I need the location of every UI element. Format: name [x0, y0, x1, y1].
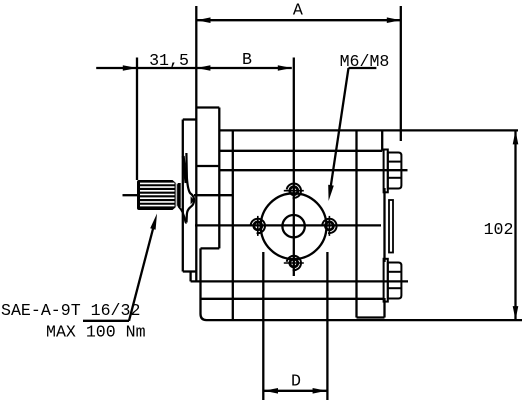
tapped hole bottom	[284, 256, 304, 270]
body lower-left column	[199, 248, 201, 314]
rear plate vertical mid	[383, 188, 385, 262]
leader M6/M8 underline	[349, 67, 377, 69]
D right arrow	[313, 388, 327, 394]
seal plate bottom	[183, 270, 197, 272]
svg-text:A: A	[293, 1, 303, 20]
dimension A left arrow	[197, 17, 211, 23]
shaft centerline stub left	[123, 194, 138, 196]
rear cover front vertical	[355, 130, 357, 317]
port boss circle	[261, 193, 327, 259]
31,5 left outside arrow	[123, 65, 137, 71]
svg-text:B: B	[242, 50, 252, 69]
leader M6/M8 line	[330, 68, 348, 190]
body bottom line with rounded corner	[201, 314, 523, 320]
flange chamfer line	[196, 165, 218, 167]
svg-text:SAE-A-9T 16/32: SAE-A-9T 16/32	[1, 301, 140, 320]
extension line shaft end (x=137)	[136, 58, 138, 181]
tapped hole right	[322, 216, 336, 236]
flange top	[196, 106, 219, 108]
bottom bolt washer	[384, 259, 388, 302]
dimension D line	[264, 390, 327, 392]
dimension 102 line	[514, 130, 516, 320]
body top line	[219, 129, 518, 131]
rear cover back vertical top	[381, 130, 383, 150]
rear thin plate between bolts	[389, 200, 393, 253]
port bore circle	[282, 215, 304, 237]
B left arrow (tip at flange face ext)	[196, 65, 210, 71]
rear plate vertical bottom	[383, 298, 385, 318]
extension line right (x=401)	[400, 6, 402, 141]
tapped hole top	[284, 183, 304, 197]
shaft neck profile curve	[186, 153, 194, 223]
top bolt head	[388, 153, 402, 189]
leader SAE underline	[83, 320, 129, 322]
body split line lower	[201, 298, 384, 300]
svg-text:31,5: 31,5	[149, 51, 189, 70]
port horizontal centerline	[195, 224, 381, 226]
leader SAE arrowhead	[150, 214, 157, 230]
leader SAE line	[129, 225, 154, 321]
flange rear edge	[218, 108, 220, 249]
tapped hole left	[251, 216, 265, 236]
dimension A line	[196, 19, 400, 21]
body front vertical	[232, 130, 234, 320]
seal wedge	[183, 156, 186, 183]
B right arrow	[278, 65, 292, 71]
bottom bolt head	[388, 263, 402, 299]
top bolt washer	[384, 150, 388, 193]
gear top line / top bolt centerline	[219, 169, 407, 171]
shaft neck lower curve	[179, 207, 187, 223]
dimension A right arrow	[387, 17, 401, 23]
dimension 31,5 / B shared line	[96, 67, 292, 69]
rear cover bottom	[357, 316, 385, 318]
body split line upper	[219, 150, 382, 152]
top bolt facet lines	[388, 161, 402, 163]
bottom bolt facet lines	[388, 271, 402, 273]
splined shaft block	[137, 180, 181, 210]
svg-text:D: D	[291, 372, 301, 391]
102 top arrow	[513, 130, 519, 144]
extension line left (flange face, x=196)	[195, 6, 197, 281]
shaft centerline at flange	[194, 194, 233, 196]
shaft end cap	[178, 183, 181, 207]
seal plate left edge	[182, 120, 184, 272]
svg-text:102: 102	[484, 220, 514, 239]
extension line port centerline (x=293.8)	[293, 58, 295, 277]
leader M6/M8 arrowhead	[328, 185, 334, 201]
seal plate top	[183, 118, 197, 120]
svg-text:M6/M8: M6/M8	[340, 52, 390, 71]
shaft neck apex fill	[191, 196, 195, 204]
D extension line left (x=263)	[262, 252, 264, 400]
flange face bottom stub vertical	[189, 272, 191, 282]
spline white lines	[140, 182, 176, 208]
svg-text:MAX 100 Nm: MAX 100 Nm	[46, 323, 146, 342]
D left arrow	[264, 388, 278, 394]
102 bottom arrow	[513, 306, 519, 320]
flange bottom jog	[201, 247, 220, 249]
gear bottom line / bottom bolt centerline	[191, 280, 408, 282]
D extension line right (x=327)	[326, 252, 328, 400]
